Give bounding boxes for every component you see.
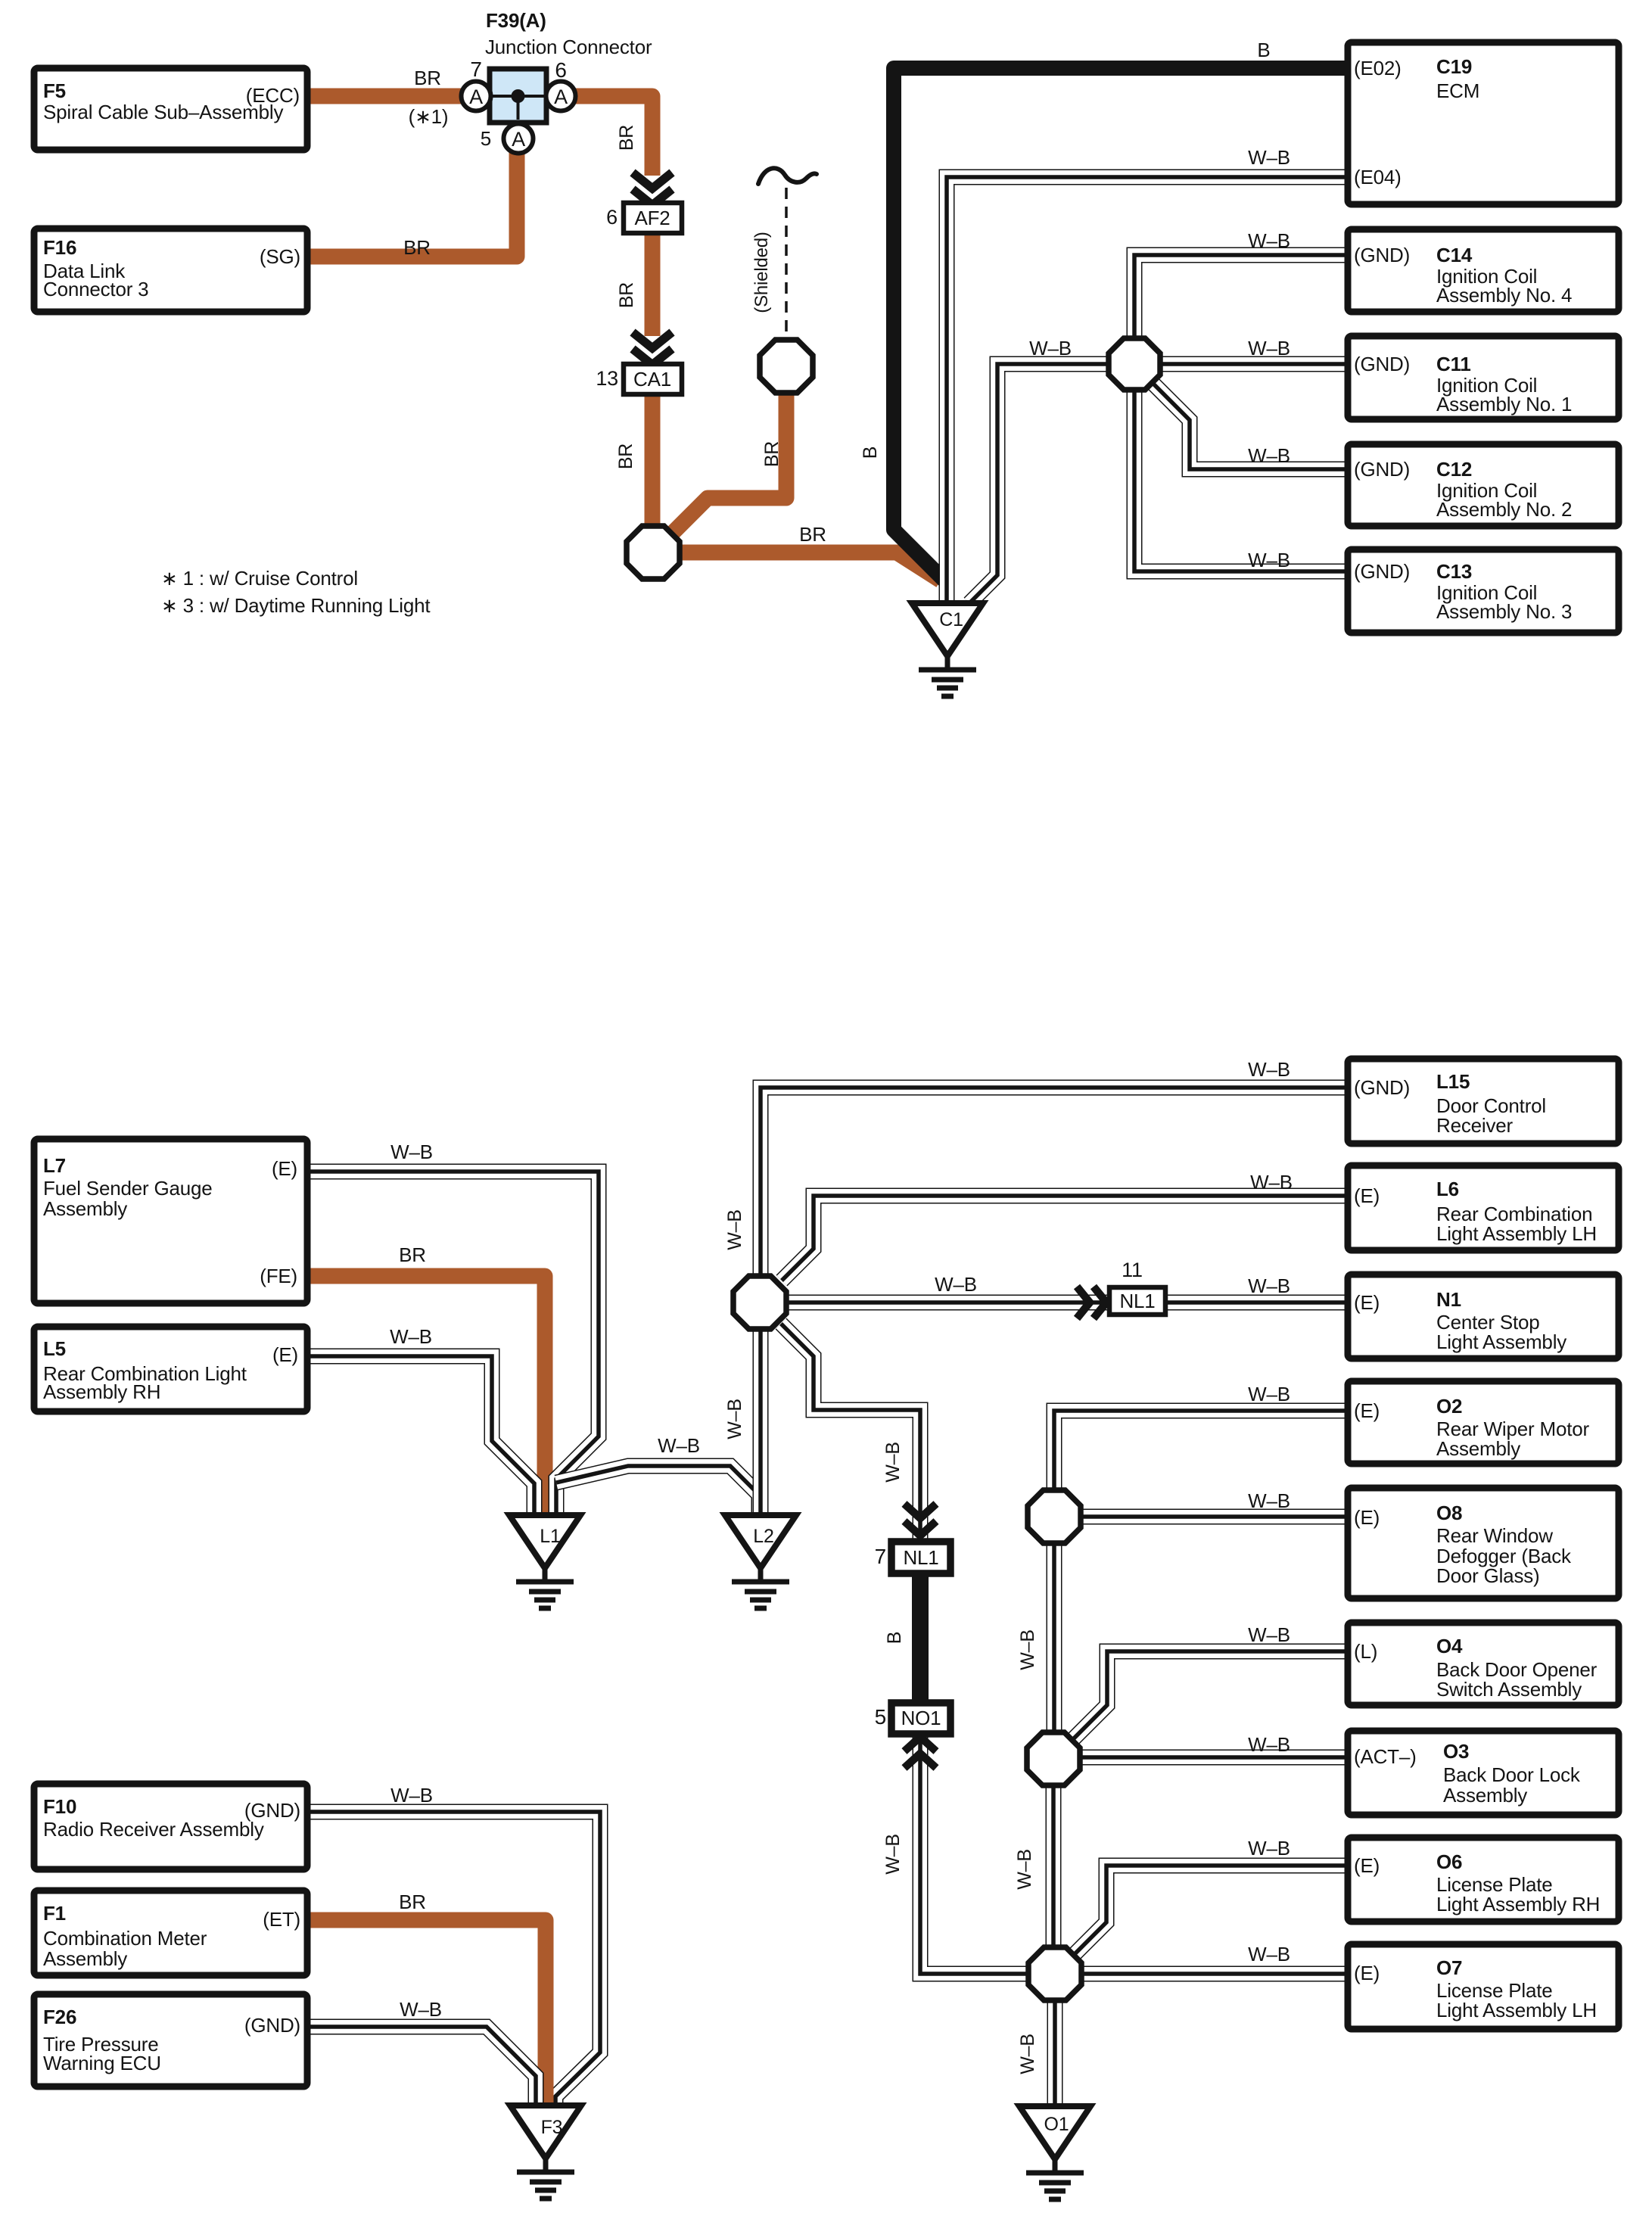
- label W-B (O7): [1248, 1943, 1290, 1965]
- wire W-B joint J2 to C13(GND): [1134, 391, 1349, 571]
- svg-text:W–B: W–B: [1248, 1274, 1290, 1297]
- svg-text:(SG): (SG): [260, 245, 300, 268]
- svg-text:O2: O2: [1436, 1395, 1462, 1418]
- svg-text:(GND): (GND): [1354, 353, 1410, 375]
- junction connector F39(A) square: [490, 69, 546, 123]
- svg-text:W–B: W–B: [1017, 2034, 1038, 2074]
- svg-text:Door Glass): Door Glass): [1436, 1564, 1540, 1587]
- wire BR F1(ET) to ground F3: [307, 1920, 546, 2105]
- connector terminal A pin 6: [546, 82, 576, 111]
- svg-text:W–B: W–B: [1014, 1849, 1035, 1890]
- wire BR L7(FE) to ground L1: [307, 1276, 545, 1515]
- svg-text:F26: F26: [43, 2006, 76, 2028]
- svg-text:5: 5: [875, 1705, 886, 1729]
- label BR (F16 wire): [403, 236, 431, 259]
- label BR vertical AF2-CA1: [616, 282, 637, 308]
- label W-B (N1 right): [1248, 1274, 1290, 1297]
- component O7 License Plate Light Assembly LH: [1348, 1944, 1619, 2029]
- svg-text:∗ 3 : w/ Daytime Running Light: ∗ 3 : w/ Daytime Running Light: [161, 594, 431, 617]
- ground L2: [725, 1515, 796, 1608]
- svg-text:(GND): (GND): [1354, 1076, 1410, 1099]
- component F10 Radio Receiver Assembly: [34, 1784, 307, 1869]
- svg-text:Assembly No. 4: Assembly No. 4: [1436, 284, 1572, 307]
- arrow into CA1: [633, 332, 672, 365]
- wire W-B joint J3 to L15(GND): [761, 1088, 1348, 1274]
- arrow on N1 wire into NL1: [1077, 1287, 1106, 1318]
- svg-text:Combination Meter: Combination Meter: [43, 1927, 207, 1950]
- svg-text:BR: BR: [399, 1891, 426, 1913]
- label W-B (J2 left): [1029, 337, 1072, 359]
- svg-text:Assembly: Assembly: [43, 1947, 127, 1970]
- svg-text:(∗1): (∗1): [409, 105, 449, 128]
- svg-text:Light Assembly RH: Light Assembly RH: [1436, 1893, 1600, 1916]
- label W-B vertical J5-O1: [1017, 2034, 1038, 2074]
- label W-B (C11): [1248, 337, 1290, 359]
- svg-text:L2: L2: [753, 1526, 773, 1547]
- wire W-B joint J4a to O8(E): [1082, 1509, 1348, 1525]
- svg-text:C12: C12: [1436, 458, 1472, 481]
- ground O1: [1019, 2106, 1090, 2199]
- svg-text:C19: C19: [1436, 55, 1472, 78]
- label W-B (L5): [390, 1325, 432, 1348]
- label W-B (O4): [1248, 1623, 1290, 1646]
- ground C1: [912, 603, 983, 696]
- svg-text:Light Assembly: Light Assembly: [1436, 1330, 1566, 1353]
- wire W-B joint J4a to joint J4b: [1047, 1545, 1062, 1731]
- component C13 Ignition Coil Assembly No. 3: [1348, 549, 1619, 633]
- svg-text:Assembly RH: Assembly RH: [43, 1380, 160, 1403]
- svg-text:F16: F16: [43, 236, 76, 259]
- component L15 Door Control Receiver: [1348, 1059, 1619, 1144]
- junction joint J4a (rear splice): [1028, 1490, 1081, 1543]
- label W-B vertical NL1 branch: [882, 1442, 904, 1483]
- wire W-B joint J5 to O7(E): [1083, 1966, 1348, 1982]
- label W-B (C14): [1248, 229, 1290, 252]
- svg-text:NO1: NO1: [901, 1707, 941, 1729]
- svg-text:(E): (E): [1354, 1184, 1380, 1207]
- label F39(A): [486, 9, 546, 32]
- svg-text:(GND): (GND): [244, 2014, 300, 2037]
- svg-text:O8: O8: [1436, 1502, 1462, 1524]
- wire W-B joint J3 to L6(E): [782, 1196, 1348, 1281]
- junction joint J1 (brown splice): [627, 526, 680, 579]
- connector NL1 pin 11: [1109, 1259, 1165, 1315]
- svg-text:7: 7: [470, 58, 481, 81]
- svg-text:C14: C14: [1436, 244, 1473, 266]
- svg-text:ECM: ECM: [1436, 79, 1479, 102]
- svg-text:Switch Assembly: Switch Assembly: [1436, 1678, 1582, 1701]
- svg-text:Light Assembly LH: Light Assembly LH: [1436, 1222, 1597, 1245]
- svg-text:(ET): (ET): [263, 1908, 300, 1931]
- svg-text:O4: O4: [1436, 1635, 1463, 1657]
- label B (top): [1257, 39, 1270, 61]
- svg-text:L5: L5: [43, 1337, 66, 1360]
- svg-text:(GND): (GND): [1354, 560, 1410, 583]
- svg-text:(E): (E): [272, 1343, 298, 1366]
- label W-B vertical J4b-J5: [1014, 1849, 1035, 1890]
- svg-text:W–B: W–B: [1029, 337, 1072, 359]
- wire B connector NL1 to connector NO1: [912, 1570, 929, 1706]
- wire W-B joint J3 to ground L2: [753, 1330, 769, 1515]
- svg-text:11: 11: [1122, 1259, 1143, 1281]
- svg-text:Rear Window: Rear Window: [1436, 1524, 1553, 1547]
- label W-B (L6): [1250, 1171, 1293, 1194]
- svg-text:BR: BR: [616, 125, 637, 151]
- connector terminal A pin 5: [504, 124, 534, 154]
- wire BR AF2 to CA1: [645, 230, 661, 336]
- svg-text:O6: O6: [1436, 1850, 1462, 1873]
- component O8 Rear Window Defogger: [1348, 1488, 1619, 1598]
- svg-text:B: B: [884, 1632, 905, 1644]
- svg-text:W–B: W–B: [1248, 1489, 1290, 1512]
- connector NL1 pin 7: [875, 1542, 950, 1573]
- ground L1: [509, 1515, 580, 1608]
- wire W-B joint J4b to O4(L): [1074, 1651, 1348, 1738]
- connector AF2 pin 6: [606, 203, 682, 233]
- label W-B (C13): [1248, 549, 1290, 571]
- label W-B (F10): [390, 1784, 433, 1807]
- pin number 7: [470, 58, 481, 81]
- svg-text:W–B: W–B: [1250, 1171, 1293, 1194]
- label W-B vertical J4a-J4b: [1017, 1629, 1038, 1670]
- connector CA1 pin 13: [596, 364, 682, 394]
- label asterisk note 1: [161, 567, 358, 590]
- component L7 Fuel Sender Gauge Assembly: [34, 1139, 307, 1303]
- svg-text:W–B: W–B: [1248, 1837, 1290, 1860]
- component O6 License Plate Light Assembly RH: [1348, 1838, 1619, 1922]
- label W-B (C12): [1248, 444, 1290, 467]
- svg-text:W–B: W–B: [400, 1998, 442, 2021]
- label Junction Connector: [485, 36, 652, 58]
- wire W-B joint J4a to O2(E): [1054, 1411, 1348, 1489]
- svg-text:(E): (E): [1354, 1399, 1380, 1422]
- svg-text:BR: BR: [399, 1243, 426, 1266]
- label W-B (L7): [390, 1141, 433, 1163]
- svg-text:13: 13: [596, 367, 618, 390]
- svg-text:C11: C11: [1436, 353, 1471, 375]
- svg-text:L15: L15: [1436, 1070, 1470, 1093]
- label W-B (F26): [400, 1998, 442, 2021]
- svg-text:Assembly No. 3: Assembly No. 3: [1436, 600, 1572, 623]
- label BR (J1 to C1): [799, 523, 826, 546]
- svg-text:NL1: NL1: [1119, 1290, 1155, 1312]
- shield dashed line: [785, 188, 788, 335]
- svg-text:(E): (E): [1354, 1291, 1380, 1314]
- svg-text:W–B: W–B: [935, 1273, 977, 1296]
- svg-text:Spiral Cable Sub–Assembly: Spiral Cable Sub–Assembly: [43, 101, 283, 123]
- label W-B (O6): [1248, 1837, 1290, 1860]
- wire W-B F26(GND) to ground F3: [307, 2027, 536, 2105]
- svg-text:Assembly No. 1: Assembly No. 1: [1436, 393, 1572, 415]
- component F26 Tire Pressure Warning ECU: [34, 1994, 307, 2087]
- component O3 Back Door Lock Assembly: [1348, 1731, 1619, 1815]
- label W-B (L1-L2): [658, 1434, 700, 1457]
- svg-text:F5: F5: [43, 79, 66, 102]
- component C19 ECM: [1348, 42, 1619, 204]
- svg-text:Junction Connector: Junction Connector: [485, 36, 652, 58]
- svg-text:(E04): (E04): [1354, 166, 1402, 188]
- label BR vertical junction-AF2: [616, 125, 637, 151]
- wire BR F5(ECC) to junction connector F39(A) and down to AF2: [307, 96, 652, 176]
- svg-text:A: A: [469, 86, 483, 108]
- connector NO1 pin 5: [875, 1703, 950, 1734]
- arrow into AF2: [633, 173, 672, 205]
- svg-text:W–B: W–B: [1248, 549, 1290, 571]
- component C14 Ignition Coil Assembly No. 4: [1348, 229, 1619, 312]
- wire W-B joint J3 to N1(E): [788, 1295, 1348, 1311]
- svg-text:W–B: W–B: [724, 1209, 745, 1250]
- label (*1): [409, 105, 449, 128]
- component N1 Center Stop Light Assembly: [1348, 1274, 1619, 1358]
- svg-text:C1: C1: [939, 609, 963, 630]
- svg-text:BR: BR: [403, 236, 431, 259]
- wire W-B joint J5 to O6(E): [1075, 1866, 1348, 1954]
- svg-text:W–B: W–B: [1248, 444, 1290, 467]
- wire W-B joint J5 to connector NO1 pin 5: [920, 1735, 1027, 1974]
- svg-text:7: 7: [875, 1545, 886, 1568]
- wire W-B joint J5 to ground O1: [1047, 2002, 1063, 2106]
- label B vertical: [860, 447, 881, 459]
- svg-text:W–B: W–B: [390, 1784, 433, 1807]
- svg-text:W–B: W–B: [1248, 1943, 1290, 1965]
- wire BR F16(SG) to junction connector pin 5: [307, 151, 517, 257]
- svg-text:BR: BR: [414, 67, 441, 89]
- svg-text:Radio Receiver Assembly: Radio Receiver Assembly: [43, 1818, 264, 1841]
- svg-text:W–B: W–B: [1248, 1058, 1290, 1081]
- arrow into NL1 pin 7: [904, 1504, 936, 1536]
- label BR vertical shielded: [761, 441, 782, 467]
- svg-text:L1: L1: [540, 1526, 560, 1547]
- svg-text:Warning ECU: Warning ECU: [43, 2052, 161, 2074]
- wire BR CA1 to octagon joint J1: [645, 391, 661, 526]
- svg-text:A: A: [512, 128, 525, 151]
- svg-text:BR: BR: [799, 523, 826, 546]
- svg-text:BR: BR: [616, 282, 637, 308]
- svg-text:AF2: AF2: [634, 207, 670, 229]
- label asterisk note 3: [161, 594, 431, 617]
- svg-text:(Shielded): (Shielded): [751, 232, 772, 313]
- wire W-B ECM(E04) to ground C1: [947, 177, 1349, 603]
- wire W-B ground L1 to ground L2 link: [556, 1466, 759, 1515]
- svg-text:(E): (E): [1354, 1962, 1380, 1984]
- svg-text:W–B: W–B: [1017, 1629, 1038, 1670]
- wire W-B joint J4b to joint J5: [1046, 1787, 1062, 1946]
- wire W-B L7(E) to ground L1: [307, 1172, 599, 1515]
- pin number 5: [481, 127, 491, 150]
- label W-B (N1 left): [935, 1273, 977, 1296]
- svg-text:B: B: [1257, 39, 1270, 61]
- component F5 Spiral Cable Sub-Assembly: [34, 68, 307, 150]
- svg-text:W–B: W–B: [1248, 229, 1290, 252]
- wire W-B L5(E) to ground L1: [307, 1356, 534, 1515]
- shield break squiggle: [758, 168, 817, 184]
- svg-text:O7: O7: [1436, 1956, 1462, 1979]
- svg-text:O3: O3: [1443, 1740, 1469, 1763]
- svg-text:(E): (E): [1354, 1506, 1380, 1529]
- label W-B (O3): [1248, 1733, 1290, 1756]
- svg-text:(E): (E): [272, 1157, 297, 1180]
- junction joint J5 (license plate splice): [1028, 1947, 1081, 2000]
- svg-text:C13: C13: [1436, 560, 1472, 583]
- svg-text:W–B: W–B: [882, 1442, 904, 1483]
- pin number 6: [555, 58, 566, 82]
- svg-text:F39(A): F39(A): [486, 9, 546, 32]
- svg-text:Light Assembly LH: Light Assembly LH: [1436, 1999, 1597, 2021]
- svg-text:(L): (L): [1354, 1640, 1377, 1663]
- wire W-B F10(GND) to ground F3: [307, 1812, 600, 2105]
- svg-text:Assembly: Assembly: [1443, 1784, 1527, 1807]
- component L6 Rear Combination Light Assembly LH: [1348, 1166, 1619, 1250]
- svg-text:W–B: W–B: [1248, 1733, 1290, 1756]
- svg-text:Assembly: Assembly: [43, 1197, 127, 1220]
- svg-text:W–B: W–B: [1248, 1383, 1290, 1405]
- component L5 Rear Combination Light Assembly RH: [34, 1327, 307, 1411]
- svg-text:(E02): (E02): [1354, 57, 1402, 79]
- label W-B vertical J3-L15: [724, 1209, 745, 1250]
- label W-B (E04): [1248, 146, 1290, 169]
- svg-text:Receiver: Receiver: [1436, 1114, 1514, 1137]
- component O2 Rear Wiper Motor Assembly: [1348, 1381, 1619, 1464]
- label W-B (O8): [1248, 1489, 1290, 1512]
- ground F3: [510, 2105, 581, 2199]
- svg-text:Assembly No. 2: Assembly No. 2: [1436, 498, 1572, 521]
- svg-text:Fuel Sender Gauge: Fuel Sender Gauge: [43, 1177, 213, 1200]
- wire BR joint J1 to ground C1: [680, 552, 941, 580]
- label BR (F5 wire): [414, 67, 441, 89]
- junction shielded splice octagon: [760, 340, 813, 393]
- label BR (F1): [399, 1891, 426, 1913]
- svg-text:L6: L6: [1436, 1178, 1459, 1200]
- svg-text:∗ 1 : w/ Cruise Control: ∗ 1 : w/ Cruise Control: [161, 567, 358, 590]
- svg-text:W–B: W–B: [1248, 146, 1290, 169]
- component C11 Ignition Coil Assembly No. 1: [1348, 336, 1619, 419]
- label BR vertical CA1-J1: [615, 443, 636, 469]
- wire W-B joint J3 to connector NL1 pin 7: [781, 1324, 920, 1542]
- component O4 Back Door Opener Switch Assembly: [1348, 1623, 1619, 1705]
- svg-text:(ACT–): (ACT–): [1354, 1745, 1417, 1768]
- svg-text:(FE): (FE): [260, 1265, 297, 1287]
- svg-text:F1: F1: [43, 1902, 66, 1925]
- wire W-B joint J2 to C12(GND): [1153, 384, 1349, 469]
- wire B ECM(E02) to ground C1: [894, 68, 1349, 582]
- svg-text:O1: O1: [1044, 2114, 1069, 2135]
- svg-text:5: 5: [481, 127, 491, 150]
- svg-text:W–B: W–B: [658, 1434, 700, 1457]
- svg-text:CA1: CA1: [633, 368, 671, 391]
- component C12 Ignition Coil Assembly No. 2: [1348, 444, 1619, 526]
- label BR (FE): [399, 1243, 426, 1266]
- svg-text:B: B: [860, 447, 881, 459]
- svg-text:W–B: W–B: [1248, 1623, 1290, 1646]
- svg-text:Connector 3: Connector 3: [43, 278, 148, 300]
- svg-text:6: 6: [555, 58, 566, 82]
- junction joint J4b (back door splice): [1027, 1732, 1080, 1785]
- component F1 Combination Meter Assembly: [34, 1891, 307, 1975]
- svg-text:6: 6: [606, 206, 618, 229]
- svg-text:F10: F10: [43, 1795, 76, 1818]
- svg-text:(GND): (GND): [1354, 244, 1410, 266]
- svg-text:A: A: [554, 86, 568, 108]
- wire W-B joint J2 to C11(GND): [1162, 356, 1349, 372]
- svg-text:N1: N1: [1436, 1288, 1461, 1311]
- wire W-B joint J4b to O3(ACT-): [1081, 1750, 1348, 1766]
- svg-text:W–B: W–B: [724, 1399, 745, 1439]
- svg-text:NL1: NL1: [903, 1546, 938, 1569]
- label (Shielded): [751, 232, 772, 313]
- svg-text:(GND): (GND): [1354, 458, 1410, 481]
- component F16 Data Link Connector 3: [34, 229, 307, 312]
- svg-text:BR: BR: [615, 443, 636, 469]
- wire W-B joint J2 to C14(GND): [1134, 255, 1349, 338]
- wire W-B coil joint J2 to ground C1: [969, 364, 1106, 603]
- svg-text:BR: BR: [761, 441, 782, 467]
- label W-B (L15): [1248, 1058, 1290, 1081]
- junction joint J2 (ignition coil grounds): [1109, 338, 1160, 390]
- wire BR shielded octagon to joint J1: [670, 394, 786, 535]
- label W-B vertical J3-L2: [724, 1399, 745, 1439]
- svg-text:Back Door Lock: Back Door Lock: [1443, 1763, 1581, 1786]
- label W-B vertical NO1 branch: [882, 1834, 904, 1875]
- svg-text:W–B: W–B: [882, 1834, 904, 1875]
- svg-text:W–B: W–B: [390, 1325, 432, 1348]
- svg-text:W–B: W–B: [390, 1141, 433, 1163]
- arrow into NO1 pin 5: [904, 1737, 936, 1768]
- label W-B (O2): [1248, 1383, 1290, 1405]
- svg-text:L7: L7: [43, 1154, 66, 1177]
- svg-text:F3: F3: [541, 2117, 563, 2138]
- connector terminal A pin 7: [462, 82, 491, 111]
- svg-text:W–B: W–B: [1248, 337, 1290, 359]
- label B vertical NL1-NO1: [884, 1632, 905, 1644]
- junction joint J3 (middle splice): [733, 1276, 786, 1329]
- svg-text:Assembly: Assembly: [1436, 1437, 1520, 1460]
- svg-text:(E): (E): [1354, 1854, 1380, 1877]
